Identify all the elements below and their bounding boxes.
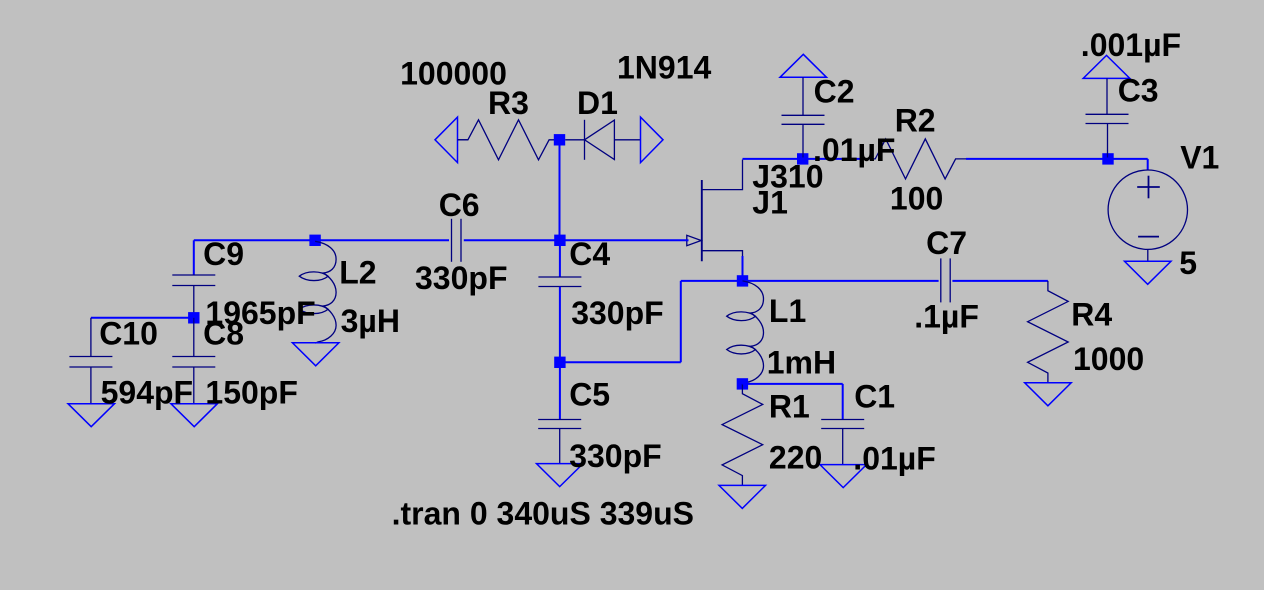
wire C6 to gate (464, 239, 688, 241)
node C4/C5 (554, 357, 565, 368)
wire C9 top lead (193, 240, 195, 275)
svg-text:.01µF: .01µF (813, 132, 895, 168)
wire source to C7 (743, 280, 939, 282)
inverted ground above C3 (1083, 55, 1130, 78)
svg-text:C2: C2 (814, 74, 855, 110)
wire C10 to C8 node (91, 317, 194, 319)
svg-text:R3: R3 (488, 85, 529, 121)
capacitor C10 (69, 357, 112, 368)
wire C1 top lead (842, 384, 844, 420)
C9 bottom lead (193, 286, 195, 318)
svg-text:C10: C10 (99, 315, 158, 351)
svg-text:L2: L2 (339, 254, 376, 290)
svg-text:C5: C5 (569, 376, 610, 412)
svg-text:R1: R1 (769, 389, 810, 425)
capacitor C2 (782, 115, 825, 124)
svg-text:330pF: 330pF (569, 438, 661, 474)
node C2/drain (797, 153, 808, 164)
svg-text:.1µF: .1µF (914, 298, 979, 334)
capacitor C8 (172, 357, 215, 368)
svg-text:C8: C8 (203, 315, 244, 351)
node L1/R1/C1 (737, 378, 748, 389)
node source (737, 275, 748, 286)
capacitor C1 (821, 420, 864, 429)
svg-text:150pF: 150pF (205, 374, 297, 410)
C5 bottom lead (559, 429, 561, 464)
resistor R1 (722, 384, 763, 486)
ground symbol left of R3 (435, 117, 458, 163)
ground under C8 (171, 404, 218, 427)
C2 top lead (802, 77, 804, 115)
ground under R4 (1025, 383, 1072, 406)
node R3-D1 (554, 134, 565, 145)
wire to C1 (742, 383, 842, 385)
capacitor C3 (1086, 114, 1129, 123)
wire C4 to C5 node (559, 287, 561, 363)
capacitor C6 (452, 219, 462, 262)
transistor J1 (JFET) (687, 160, 743, 262)
ground under C1 (820, 465, 867, 488)
svg-text:1mH: 1mH (767, 344, 836, 380)
svg-text:1N914: 1N914 (617, 50, 712, 86)
wire drain to R2 (743, 158, 866, 160)
wire R2 to V1 node (966, 158, 1148, 160)
C10 bottom lead (90, 367, 92, 404)
wire C7 to R4 (952, 280, 1048, 282)
wire into V1 (1147, 159, 1149, 170)
svg-text:5: 5 (1179, 245, 1197, 281)
ground under C5 (537, 464, 584, 487)
svg-text:.01µF: .01µF (853, 440, 935, 476)
svg-text:L1: L1 (769, 293, 806, 329)
ground symbol right of D1 (641, 117, 664, 163)
wire C4 top lead (559, 240, 561, 277)
capacitor C9 (172, 275, 215, 286)
ground (left of R3) (458, 139, 468, 141)
svg-text:100: 100 (890, 181, 943, 217)
svg-text:R4: R4 (1071, 297, 1112, 333)
svg-text:3µH: 3µH (341, 303, 400, 339)
diode D1 (565, 120, 640, 160)
capacitor C4 (538, 277, 581, 287)
C8 top lead (193, 318, 195, 357)
resistor R2 (865, 139, 966, 179)
inverted ground above C2 (780, 54, 827, 77)
C3 top lead (1106, 78, 1108, 114)
svg-text:J1: J1 (752, 184, 788, 220)
svg-text:D1: D1 (577, 85, 618, 121)
svg-text:C4: C4 (569, 236, 610, 272)
svg-text:C9: C9 (203, 236, 244, 272)
inductor L2 (299, 241, 336, 343)
ground under V1 (1125, 261, 1172, 284)
resistor R4 (1028, 281, 1069, 383)
svg-text:330pF: 330pF (571, 295, 663, 331)
svg-text:.001µF: .001µF (1081, 27, 1181, 63)
ground under R1 (719, 485, 766, 508)
inductor L1 (727, 281, 764, 384)
capacitor C7 (941, 258, 950, 302)
resistor R3 (458, 120, 560, 160)
svg-text:220: 220 (769, 440, 822, 476)
wire source lead to node (742, 256, 744, 281)
wire node to gate row (559, 140, 561, 241)
wire to source node (681, 280, 743, 282)
svg-text:C3: C3 (1118, 73, 1159, 109)
wire up to source row (680, 281, 682, 362)
wire gate (686, 239, 689, 241)
node L2 tap (309, 235, 320, 246)
svg-text:V1: V1 (1180, 139, 1219, 175)
C3 bottom lead (1107, 124, 1109, 158)
wire C5 top lead (559, 362, 561, 419)
voltage source V1 (1108, 170, 1187, 261)
C1 bottom lead (842, 429, 844, 465)
C2 bottom lead (802, 124, 804, 157)
wire C9 corner to C6 (194, 239, 449, 241)
svg-text:C7: C7 (926, 225, 967, 261)
capacitor C5 (538, 420, 581, 429)
svg-text:.tran 0 340uS 339uS: .tran 0 340uS 339uS (392, 495, 694, 531)
node gate/C4 (554, 235, 565, 246)
C10 top lead (90, 318, 92, 357)
svg-text:C1: C1 (854, 379, 895, 415)
svg-text:594pF: 594pF (101, 374, 193, 410)
C8 bottom lead (193, 367, 195, 404)
svg-text:C6: C6 (439, 187, 480, 223)
ground under C10 (68, 404, 115, 427)
wire C5 node right (560, 361, 681, 363)
svg-text:1000: 1000 (1073, 341, 1144, 377)
ground under L2 (292, 343, 339, 366)
svg-text:330pF: 330pF (415, 260, 507, 296)
node C3/V1 (1102, 153, 1113, 164)
svg-text:R2: R2 (895, 103, 936, 139)
node C9/C8/C10 (188, 312, 199, 323)
